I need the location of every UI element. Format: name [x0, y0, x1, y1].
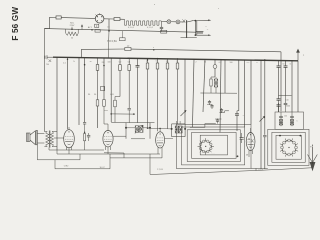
resistor grid V4 [84, 128, 86, 150]
resistor x211 branch [210, 77, 215, 93]
node on rail U [153, 47, 155, 51]
wire drop x185 [184, 59, 186, 124]
lamp La1 [167, 20, 171, 24]
svg-text:50: 50 [146, 61, 148, 63]
label [104, 110, 108, 112]
svg-text:0,1 0,1: 0,1 0,1 [128, 27, 135, 29]
resistor x120 [114, 58, 122, 122]
wire jog [104, 153, 124, 158]
svg-text:0,1: 0,1 [128, 61, 131, 63]
wire rail2 [44, 29, 196, 33]
svg-text:6: 6 [257, 62, 258, 64]
wire vertical at 109 [107, 19, 110, 58]
wire drop x67.5 [67, 57, 68, 129]
wire V4 top [68, 127, 70, 130]
svg-text:HO 0,5A: HO 0,5A [107, 40, 117, 43]
wire bus y150 [49, 149, 104, 151]
title F 56 GW [11, 7, 20, 41]
capacitor cluster b [216, 119, 219, 124]
wire drop x194 [193, 59, 195, 127]
wire [56, 150, 58, 154]
tube V1 pins [198, 138, 214, 154]
wire V4 anode link [54, 137, 64, 139]
svg-text:6: 6 [153, 47, 154, 49]
wire V3 bottom route [149, 154, 151, 174]
node [91, 29, 93, 31]
label C [243, 115, 245, 117]
wire mains lower [195, 34, 208, 36]
capacitor C2 vertical [160, 21, 163, 31]
node tap [71, 27, 73, 30]
wire IF1 feed [111, 121, 154, 123]
wire V2 top [107, 124, 109, 131]
label [94, 94, 97, 96]
node on rail M [157, 58, 178, 60]
wire bottom long [150, 168, 312, 175]
svg-text:0,1 0,1: 0,1 0,1 [147, 27, 154, 29]
label bottom [246, 154, 264, 171]
wire drop x221 [220, 60, 221, 133]
svg-text:0,5: 0,5 [247, 62, 250, 64]
wire loop L4 [192, 132, 237, 158]
coil L-heater zigzag [66, 29, 79, 36]
svg-text:2M: 2M [102, 62, 105, 64]
labels in box [284, 116, 297, 123]
wire loop L3 [187, 130, 240, 162]
node junction [108, 30, 110, 32]
switch arrow 1 [181, 110, 187, 116]
rectifier tube V7 top-view [95, 13, 104, 23]
label R25 [127, 45, 130, 47]
capacitor x285.5 [284, 60, 292, 95]
wire drop x238.8 [237, 60, 239, 111]
svg-text:100: 100 [108, 62, 111, 64]
wire loop M2 [272, 132, 305, 162]
svg-text:16·07: 16·07 [99, 167, 105, 169]
wire stepped a [190, 124, 216, 128]
IF transformer IF1 [125, 123, 151, 139]
label [63, 60, 110, 65]
capacitor x137.5 [136, 58, 140, 122]
wire V4 pins [67, 147, 72, 154]
svg-text:50: 50 [283, 63, 285, 65]
wire rail U drop at left end [80, 49, 82, 58]
wire V3 top [147, 128, 173, 139]
svg-text:0,1: 0,1 [156, 61, 159, 63]
IF transformer T1 [171, 121, 187, 137]
wire [180, 21, 185, 23]
box oscillator [275, 112, 304, 129]
label mains voltage [205, 25, 209, 31]
fuse Si1 [56, 16, 61, 19]
wire V6 top [250, 128, 252, 133]
resistor x147.5 [146, 58, 149, 128]
wire drop x298 [297, 61, 299, 112]
coil x216 branch [214, 77, 217, 93]
wire bus y93 [200, 92, 237, 94]
node [279, 135, 281, 137]
wire routing bottom-left [37, 145, 80, 160]
wire [61, 17, 95, 20]
label V4 [64, 166, 69, 168]
svg-text:F 56 GW: F 56 GW [11, 7, 20, 41]
capacitor x278.5 [277, 60, 285, 95]
svg-text:100: 100 [284, 116, 287, 118]
fuse box F2 [114, 18, 120, 21]
tube V3 demod [156, 132, 165, 148]
wire avc link [110, 113, 134, 115]
label coil [71, 38, 74, 40]
node [237, 155, 239, 157]
wire drop x205 [203, 59, 205, 112]
wire drop x84.6 [83, 58, 86, 128]
svg-text:100: 100 [285, 100, 288, 102]
wire drop x261 [260, 60, 262, 169]
wire speaker connects [37, 134, 44, 144]
earth symbol [308, 145, 318, 172]
wire loop L1 [176, 124, 251, 168]
resistor x129 [128, 58, 131, 122]
label V3 [157, 169, 163, 171]
lamp La2 [176, 20, 180, 24]
wire [120, 18, 125, 20]
speck [154, 4, 155, 5]
wire fork to mains [187, 21, 193, 22]
wire [279, 95, 292, 97]
label tube V7 [88, 26, 93, 29]
wire top-left corner vertical [48, 17, 50, 28]
transformer Tr output [44, 29, 57, 148]
wire drop x104 [103, 58, 108, 124]
label [102, 62, 105, 64]
capacitor C1 below tube [95, 24, 99, 27]
tube V5 socket [282, 141, 296, 155]
svg-text:0,1: 0,1 [107, 26, 110, 28]
capacitor cluster d [220, 108, 223, 113]
svg-text:2: 2 [196, 62, 197, 64]
wire [104, 18, 114, 20]
node [300, 135, 302, 137]
resistor x177.5 [176, 59, 179, 124]
capacitor C4 end of rail2 [196, 32, 203, 33]
speck [218, 8, 219, 9]
label dropper values [128, 27, 154, 29]
wire drop x111 [110, 58, 112, 122]
resistor R-dropper meander [125, 21, 162, 25]
wire loop M1 [268, 129, 309, 165]
label mains label [70, 22, 75, 27]
wire rail U right corner drop [280, 52, 282, 111]
svg-text:0,1: 0,1 [63, 63, 66, 65]
wire [171, 21, 176, 23]
wire drop x251 [250, 60, 252, 125]
tube V1 mixer socket [200, 141, 211, 152]
capacitor C3 on rail2 [95, 30, 100, 33]
wire tick [207, 105, 222, 120]
node [195, 20, 197, 22]
stepped wire near V1 [219, 111, 229, 113]
capacitor cluster a [210, 104, 213, 109]
mains plug arrow upper [208, 19, 211, 21]
wire routing 2 [55, 154, 110, 169]
wire bus y158 [110, 157, 162, 159]
label [110, 94, 114, 96]
label [107, 26, 110, 28]
label fuse [107, 38, 125, 43]
wire drop x244.7 [244, 60, 246, 127]
wire V2 grid link [113, 135, 126, 137]
component small [101, 87, 105, 91]
capacitor near V4 [87, 133, 90, 141]
wire [124, 19, 126, 21]
capacitor stack right [277, 96, 291, 113]
wire bottom join [251, 168, 268, 170]
svg-text:30: 30 [90, 61, 92, 63]
coil in box 2 [290, 112, 294, 126]
svg-text:0,05: 0,05 [110, 94, 114, 96]
svg-text:17,03: 17,03 [157, 169, 163, 171]
svg-text:100: 100 [230, 62, 233, 64]
tube V2 IF [103, 131, 113, 147]
capacitor cluster c [208, 100, 211, 105]
wire V3 pins [158, 147, 162, 158]
label grid row [211, 153, 215, 155]
wire loop L2 [182, 127, 245, 165]
tube V5 pins [280, 138, 298, 156]
resistor x157.5 [156, 59, 159, 132]
capacitor on x237 [235, 111, 239, 131]
resistor R25 on rail U [125, 48, 131, 51]
labels under rail [119, 60, 258, 64]
wire loop M3 [276, 135, 301, 159]
wire rail M (main B+) [53, 57, 298, 61]
wire rail U right part [131, 49, 281, 52]
resistor chain x97.5 [96, 58, 99, 128]
wire mains vertical pair [195, 21, 196, 36]
tube V4 output [64, 130, 75, 148]
selector arrow on rail2 [81, 24, 83, 29]
wire drop x225 [224, 60, 226, 93]
wire [162, 21, 168, 23]
wire V2 pins [106, 146, 111, 154]
trimmer x215 [213, 59, 217, 77]
svg-text:5: 5 [297, 121, 298, 123]
capacitor left of V6 [240, 133, 244, 143]
svg-text:C/92: C/92 [64, 166, 69, 168]
wire rail U (B+ upper) [81, 48, 125, 50]
wire mains upper [193, 19, 208, 21]
wire drop x57 [56, 57, 58, 150]
svg-text:220V: 220V [70, 25, 75, 27]
wire drop x79 [78, 58, 80, 125]
wire V6 pins [249, 150, 252, 157]
wire bus y154 [57, 153, 160, 155]
label [88, 94, 91, 96]
svg-text:· · · ·: · · · · [211, 153, 215, 155]
switch arrow 2 [260, 116, 265, 121]
wire drop x264.8 [263, 59, 266, 169]
wire rail2 stub left [44, 28, 49, 30]
arrow up at rail M right end [296, 49, 305, 61]
speaker LS [27, 130, 38, 144]
node [195, 34, 197, 36]
wire fuse drop [121, 31, 123, 38]
wire top rail left [49, 16, 56, 18]
svg-text:0,2: 0,2 [119, 61, 122, 63]
capacitor x285.5 lower [284, 96, 288, 113]
fuse box F3 on rail2 [161, 30, 167, 33]
coil in box 1 [279, 112, 283, 126]
svg-text:5000: 5000 [286, 106, 290, 108]
connector left end of rail M [45, 55, 53, 66]
svg-text:4000: 4000 [104, 110, 108, 112]
switch S1 [181, 19, 197, 37]
tube V6 oscillator [246, 133, 255, 151]
wire [48, 148, 50, 151]
wire loop L5 [200, 135, 227, 155]
resistor x167.5 [166, 59, 169, 129]
label [99, 167, 105, 169]
wire drop x292 [291, 60, 293, 112]
wire [160, 20, 163, 22]
mains plug arrow lower [208, 34, 211, 36]
